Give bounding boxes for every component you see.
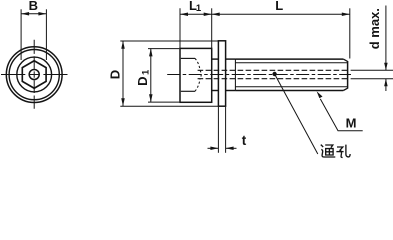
svg-text:L: L	[275, 0, 283, 13]
dimension L	[212, 8, 350, 58]
svg-text:M: M	[346, 116, 357, 131]
through-hole kanji 孔	[336, 145, 350, 158]
hole extension lines at tip	[351, 70, 393, 78]
vent hole hidden lines	[198, 70, 348, 78]
socket chamfer circle (left view)	[17, 57, 52, 92]
svg-text:d max.: d max.	[367, 8, 382, 49]
dimension t	[208, 107, 237, 153]
thread start line	[234, 59, 236, 90]
thread crest lines	[235, 59, 343, 90]
dimension D	[120, 41, 218, 107]
centerline vertical (left view)	[33, 40, 35, 109]
svg-text:D: D	[107, 70, 122, 79]
svg-text:1: 1	[196, 3, 202, 14]
vent hole circle (left view)	[29, 70, 39, 80]
thread callout leader	[320, 99, 362, 131]
shank plain segments	[212, 59, 236, 90]
head outline (side view)	[180, 48, 212, 102]
washer (side view)	[218, 41, 225, 106]
dimension D1	[148, 48, 179, 102]
dimension B	[21, 9, 46, 60]
svg-text:D: D	[135, 77, 150, 86]
socket cone dashed arcs	[195, 58, 201, 91]
svg-text:B: B	[29, 0, 38, 13]
screw axis centerline	[167, 74, 351, 76]
thread minor lines	[235, 63, 347, 87]
socket flat lines (side view)	[181, 58, 195, 91]
dimension d max.	[385, 6, 387, 92]
tip chamfer	[343, 59, 347, 90]
through-hole kanji 通	[321, 145, 335, 157]
dimension L1	[180, 8, 212, 48]
svg-text:1: 1	[140, 69, 151, 75]
through-hole callout leader	[275, 74, 318, 154]
centerline horizontal (left view)	[1, 74, 68, 76]
tip face	[347, 61, 349, 89]
through-hole callout dot	[272, 72, 276, 76]
washer outer circle (left view)	[6, 47, 62, 103]
washer inner circle (left view)	[9, 50, 59, 100]
svg-text:t: t	[242, 133, 247, 148]
hex socket (left view)	[22, 61, 46, 88]
